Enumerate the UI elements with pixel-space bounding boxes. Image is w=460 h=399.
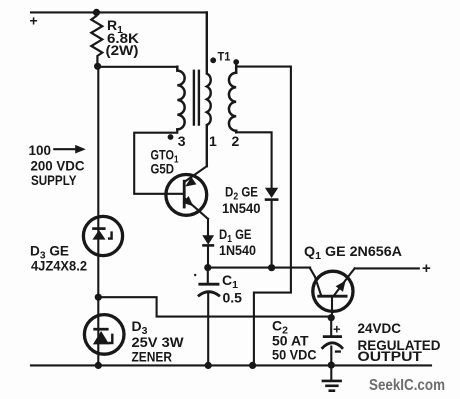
D3 upper hook [108, 231, 112, 238]
svg-text:1N540: 1N540 [219, 242, 256, 258]
D3 upper triangle [92, 230, 105, 240]
capacitor C1 top plate [198, 283, 219, 286]
capacitor C2 top plate [323, 335, 342, 338]
GTO1 cathode arrow [183, 196, 194, 206]
svg-text:3: 3 [178, 133, 186, 149]
node T1 right dot [233, 59, 239, 65]
svg-text:G5D: G5D [151, 161, 175, 177]
wire R1 junction to T1 winding 3 top [98, 66, 178, 68]
D3 zener cathode bar [93, 328, 108, 331]
node D2 junction [268, 264, 275, 271]
wire winding2 bottom to D2 anode [236, 132, 271, 188]
node D1 C1 junction [204, 264, 211, 271]
capacitor C1 leads [207, 268, 209, 366]
wire zener reference to Q1 base [98, 297, 331, 316]
svg-text:(2W): (2W) [106, 42, 139, 58]
wire top rail [31, 11, 207, 13]
diode D1 lead [207, 219, 209, 268]
node T1 left dot [210, 57, 216, 63]
capacitor C1 curved plate [198, 292, 220, 297]
svg-text:Q1 GE 2N656A: Q1 GE 2N656A [304, 243, 402, 262]
svg-text:1: 1 [209, 133, 217, 149]
transformer core [194, 71, 199, 125]
node bottom rail left [95, 362, 102, 369]
GTO1 bar [183, 180, 186, 209]
svg-text:T1: T1 [218, 50, 231, 64]
wire rectified node [208, 267, 310, 269]
svg-text:SeekIC.com: SeekIC.com [369, 377, 445, 394]
node R1 top [93, 9, 100, 16]
svg-text:+: + [30, 12, 38, 28]
node winding3 terminal 3 [168, 134, 174, 140]
GTO1 circle [166, 175, 207, 216]
D3 zener hook [108, 334, 112, 343]
ground [322, 381, 342, 391]
Q1 base bar [317, 295, 347, 298]
svg-text:1N540: 1N540 [222, 200, 261, 216]
diode D1 cathode bar [202, 244, 214, 247]
svg-text:OUTPUT: OUTPUT [358, 349, 423, 364]
speck [194, 274, 196, 276]
transistor Q1 circle [313, 271, 353, 311]
GTO1 cathode arm [185, 198, 208, 219]
transformer T1 winding 3 (left primary) [177, 67, 184, 130]
D3 zener triangle [93, 331, 109, 344]
diode D2 triangle [265, 188, 278, 198]
capacitor C2 curved plate [322, 343, 343, 349]
svg-text:2: 2 [232, 133, 240, 149]
diode D1 triangle [202, 235, 214, 245]
wire Q1 emitter to + output [355, 267, 419, 269]
GTO1 anode arrow [185, 177, 196, 187]
svg-text:+: + [333, 322, 341, 337]
node Q1 base junction [328, 314, 335, 321]
transformer T1 winding 2 (right secondary) [229, 62, 236, 132]
transformer T1 winding 1 (middle) [207, 12, 211, 166]
capacitor C2 leads [330, 318, 332, 366]
node R1 bottom [94, 63, 101, 70]
diode D2 cathode bar [265, 198, 279, 201]
D3 upper cathode bar [92, 227, 105, 230]
GTO1 anode arm [185, 166, 207, 182]
svg-text:4JZ4X8.2: 4JZ4X8.2 [31, 259, 87, 274]
ground lead [330, 365, 332, 380]
label C2 minus [335, 350, 341, 352]
wire winding2 top to ground rail [236, 67, 291, 366]
node zener mid junction [95, 294, 102, 301]
node ground return on rail [249, 362, 256, 369]
node C1 bottom [205, 362, 212, 369]
node C2 bottom [328, 362, 335, 369]
svg-text:C1: C1 [222, 272, 238, 291]
svg-text:0.5: 0.5 [223, 290, 243, 306]
diode D3 upper circle [83, 216, 122, 255]
Q1 emitter arrow [336, 281, 346, 292]
transistor Q1 leads [310, 268, 355, 317]
svg-text:24VDC: 24VDC [358, 321, 402, 336]
svg-text:SUPPLY: SUPPLY [31, 172, 77, 188]
diode D3 zener circle [84, 315, 124, 355]
wire left rail [97, 66, 99, 365]
svg-text:+: + [422, 260, 431, 277]
svg-text:ZENER: ZENER [132, 349, 173, 365]
svg-text:50 VDC: 50 VDC [272, 347, 317, 363]
wire bottom rail [31, 364, 431, 366]
resistor R1 [91, 12, 102, 66]
diode D2 lead [271, 200, 273, 268]
svg-text:100: 100 [29, 142, 52, 158]
wire winding3 bottom to GTO1 gate [134, 129, 184, 193]
supply arrow [53, 148, 77, 150]
